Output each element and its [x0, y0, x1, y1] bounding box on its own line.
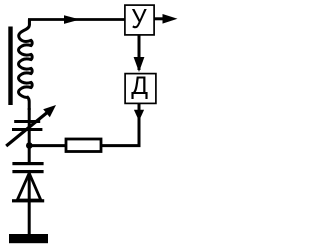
detector box D (Д): [125, 74, 156, 104]
wire: left branch vertical through variable capacitor down to C plate: [28, 108, 31, 164]
arrowhead on detector output wire (pointing down): [134, 110, 144, 121]
capacitor C2 upper plate: [12, 162, 43, 165]
arrowhead on top wire (signal direction): [64, 15, 80, 24]
diode VD1 (triangle, apex up, with wire through): [28, 172, 31, 237]
variable capacitor C1 upper plate: [14, 120, 40, 123]
resistor R1: [66, 139, 101, 152]
amplifier box U (У): [125, 5, 154, 35]
variable capacitor C1 lower plate: [12, 128, 42, 131]
svg-text:У: У: [131, 4, 147, 34]
inductor L1 (antenna coil, 5 loops): [19, 20, 33, 111]
wire: resistor to corner below detector: [101, 103, 139, 146]
junction node (dot): [26, 142, 33, 149]
arrowhead into detector: [134, 57, 145, 72]
capacitor C2 lower plate: [12, 170, 43, 173]
wire: amplifier output with arrowhead: [154, 17, 164, 20]
wire: top horizontal from coil to amplifier box: [29, 20, 124, 26]
ferrite rod core of magnetic antenna: [8, 27, 12, 106]
variable capacitor arrow (diagonal): [6, 112, 47, 146]
wire: amplifier to detector: [138, 35, 141, 70]
svg-text:Д: Д: [131, 73, 148, 100]
wire: junction to resistor: [29, 144, 66, 147]
ground bar: [9, 234, 48, 243]
diode base bar: [12, 199, 44, 202]
